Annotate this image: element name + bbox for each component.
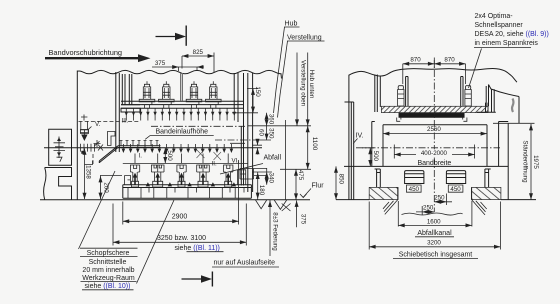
svg-text:VI.: VI. <box>232 157 240 164</box>
leaders from note block <box>79 171 175 284</box>
floor lines right view <box>336 199 536 201</box>
moving bolster box <box>383 125 487 167</box>
dim 2900 <box>123 160 239 225</box>
pit wall verticals for 1600 <box>398 201 472 227</box>
svg-text:Werkzeug-Raum: Werkzeug-Raum <box>82 275 135 282</box>
vertical center line <box>433 58 435 213</box>
svg-text:Schnellspanner: Schnellspanner <box>475 22 524 29</box>
svg-text:375: 375 <box>155 60 166 67</box>
section arrow bottom with bar <box>182 278 203 280</box>
dim 1358 <box>84 149 86 200</box>
450 value boxes <box>407 185 463 192</box>
svg-text:Bandeinlaufhöhe: Bandeinlaufhöhe <box>156 128 209 135</box>
svg-text:Verstellung: Verstellung <box>287 35 322 42</box>
left stand column (triple line) <box>345 75 354 200</box>
tool stand station 1 <box>130 154 139 188</box>
dim 150 ram <box>232 89 258 114</box>
X scribble marks near station II <box>197 150 222 161</box>
dim 200 <box>100 176 122 200</box>
right column of left view <box>241 73 252 192</box>
wavy break line top of crown <box>349 69 517 83</box>
ram bottom rail <box>121 101 243 108</box>
leader to clamp <box>469 49 482 89</box>
dim 360 <box>248 113 311 126</box>
shear down arrow <box>81 135 87 142</box>
tool stand station 4 (double) <box>197 154 210 188</box>
foundation block left hatched <box>369 187 398 199</box>
svg-text:DESA 20, siehe ((Bl. 9)): DESA 20, siehe ((Bl. 9)) <box>475 31 549 38</box>
down arrows row on band line <box>122 149 234 153</box>
svg-text:I.: I. <box>139 153 143 160</box>
band level dash line right view <box>356 147 500 149</box>
right edge of press <box>507 123 509 199</box>
dim 340 <box>252 168 272 185</box>
ram right walls <box>477 85 496 113</box>
svg-text:Bandvorschubrichtung: Bandvorschubrichtung <box>49 48 123 57</box>
dashed vert and hook below band line <box>92 154 94 164</box>
svg-text:siehe ((Bl. 11)): siehe ((Bl. 11)) <box>175 245 220 252</box>
base notch block lower left <box>44 168 72 200</box>
table side bracket left <box>375 169 381 187</box>
feeder box left <box>49 129 72 165</box>
ram left edge <box>375 75 381 113</box>
dashed line V level in column <box>79 120 141 122</box>
pit bottom wavy <box>402 213 463 215</box>
crown right outline <box>489 85 520 124</box>
clamp bolt right (side view) <box>465 86 471 106</box>
svg-text:Flur: Flur <box>312 183 325 190</box>
svg-text:IV.: IV. <box>356 133 364 140</box>
svg-text:V.: V. <box>95 121 101 128</box>
svg-text:Abfall: Abfall <box>264 154 282 161</box>
crown break shading bar <box>512 99 513 113</box>
svg-text:Hub unten: Hub unten <box>308 70 315 99</box>
svg-text:Ständeröffnung: Ständeröffnung <box>522 140 529 183</box>
svg-text:2900: 2900 <box>172 213 188 220</box>
svg-text:3200: 3200 <box>427 240 441 247</box>
tool stand station 3 <box>177 154 186 188</box>
pit walls <box>398 187 472 199</box>
feeder symbol inside box <box>54 137 66 162</box>
svg-text:450: 450 <box>409 186 420 193</box>
dim 500 left view <box>164 148 166 164</box>
svg-text:60: 60 <box>257 129 264 136</box>
band feed line (center line) <box>44 147 262 149</box>
bolster top lines <box>123 185 252 188</box>
dim 850 <box>335 166 337 199</box>
svg-text:850: 850 <box>337 174 344 185</box>
tool block left <box>405 171 424 184</box>
diagonal brace of feeder <box>99 146 118 163</box>
arrows on bolster between stations <box>146 182 236 186</box>
ram cavity walls <box>406 77 463 107</box>
dim 8+-3 Federung <box>269 200 271 256</box>
svg-text:500: 500 <box>372 151 379 162</box>
dim 1100 <box>280 126 311 170</box>
svg-text:Abfallkanal: Abfallkanal <box>417 230 452 237</box>
Abfall chute bracket right <box>230 143 267 179</box>
svg-text:475: 475 <box>297 170 304 181</box>
bolster end supports <box>125 170 246 185</box>
svg-text:375: 375 <box>299 214 306 225</box>
svg-text:340: 340 <box>267 173 274 184</box>
svg-text:825: 825 <box>193 49 204 56</box>
dim 475 <box>286 120 296 200</box>
svg-text:Verstellung oben: Verstellung oben <box>299 60 306 107</box>
svg-text:180: 180 <box>258 185 265 196</box>
tool stand station 2 (double) <box>151 154 164 188</box>
svg-text:nur auf Auslaufseite: nur auf Auslaufseite <box>214 260 276 267</box>
dim 400-2000 Bandbreite <box>394 145 474 159</box>
table top line <box>344 165 508 167</box>
svg-text:360: 360 <box>267 114 274 125</box>
stepped bracket <box>108 132 116 146</box>
tool stand station 5 <box>224 154 233 188</box>
section arrow top with bar <box>156 36 177 38</box>
side uprights at opening <box>372 122 508 167</box>
ram bolster plate hatched <box>381 106 488 112</box>
svg-text:II.: II. <box>212 161 217 168</box>
svg-text:8±3 Federung: 8±3 Federung <box>272 212 279 251</box>
dim 350 <box>253 126 271 140</box>
die clamping plate dark strip <box>399 113 465 117</box>
pit V marks below floor left view <box>256 200 291 211</box>
left column inner edges <box>116 72 120 152</box>
svg-text:2560: 2560 <box>427 126 441 133</box>
dim lines Verstellung oben / Hub unten <box>297 53 308 126</box>
bolster body with ticks <box>123 185 252 199</box>
svg-text:400-2000: 400-2000 <box>421 150 448 157</box>
svg-text:870: 870 <box>444 57 455 64</box>
svg-text:Bandbreite: Bandbreite <box>417 160 451 167</box>
svg-text:450: 450 <box>450 186 461 193</box>
svg-text:20 mm innerhalb: 20 mm innerhalb <box>82 267 134 274</box>
svg-text:2x4 Optima-: 2x4 Optima- <box>475 13 514 20</box>
ram guide gib in column <box>121 74 140 112</box>
dim 60 at band line <box>252 139 262 155</box>
svg-text:1975: 1975 <box>532 155 539 169</box>
wavy break line top of press <box>77 70 281 78</box>
clamp bolt left (side view) <box>398 86 404 106</box>
svg-text:Hub: Hub <box>285 21 298 28</box>
dim 500 right view <box>362 148 374 167</box>
svg-text:500: 500 <box>166 150 173 161</box>
svg-text:150: 150 <box>254 86 261 97</box>
svg-text:350: 350 <box>267 128 274 139</box>
left column outer edge <box>76 71 78 200</box>
svg-text:Schopfschere: Schopfschere <box>87 250 130 257</box>
table side bracket right <box>485 169 491 187</box>
feed direction thick arrow <box>45 57 139 59</box>
tick cluster on band line at column <box>81 144 103 152</box>
shear parts below dashed line <box>80 115 88 133</box>
small rect with arrow above band line <box>81 130 89 134</box>
band lifter combs under ram rail <box>125 112 236 116</box>
svg-text:1600: 1600 <box>427 218 441 225</box>
svg-text:Schiebetisch insgesamt: Schiebetisch insgesamt <box>399 251 473 258</box>
svg-text:3250 bzw. 3100: 3250 bzw. 3100 <box>157 235 206 242</box>
svg-text:siehe ((Bl. 10)): siehe ((Bl. 10)) <box>85 283 131 290</box>
die top level line <box>123 162 248 164</box>
svg-text:Schnittstelle: Schnittstelle <box>89 259 127 266</box>
tool block right <box>446 171 465 184</box>
svg-text:870: 870 <box>410 57 421 64</box>
small cross mark <box>94 140 101 147</box>
svg-text:in einem Spannkreis: in einem Spannkreis <box>475 40 539 47</box>
foundation block right hatched <box>472 187 501 199</box>
dim 3250 bzw 3100 <box>113 204 246 246</box>
die clamps on ram (4x) <box>139 81 155 108</box>
svg-text:1358: 1358 <box>85 165 92 179</box>
ram right inner edges <box>234 73 238 122</box>
dashed stroke level line <box>151 125 245 127</box>
dim Staenderoeffnung 1975 <box>493 123 535 199</box>
dim 375 below floor <box>296 201 298 228</box>
feeder comb bracket on band line <box>118 146 161 148</box>
tie rod between clamp pairs <box>181 73 183 101</box>
floor line left view <box>40 199 310 201</box>
dim 180 <box>257 172 259 200</box>
svg-text:1100: 1100 <box>311 137 318 151</box>
corner angle brackets under strip <box>397 118 467 122</box>
